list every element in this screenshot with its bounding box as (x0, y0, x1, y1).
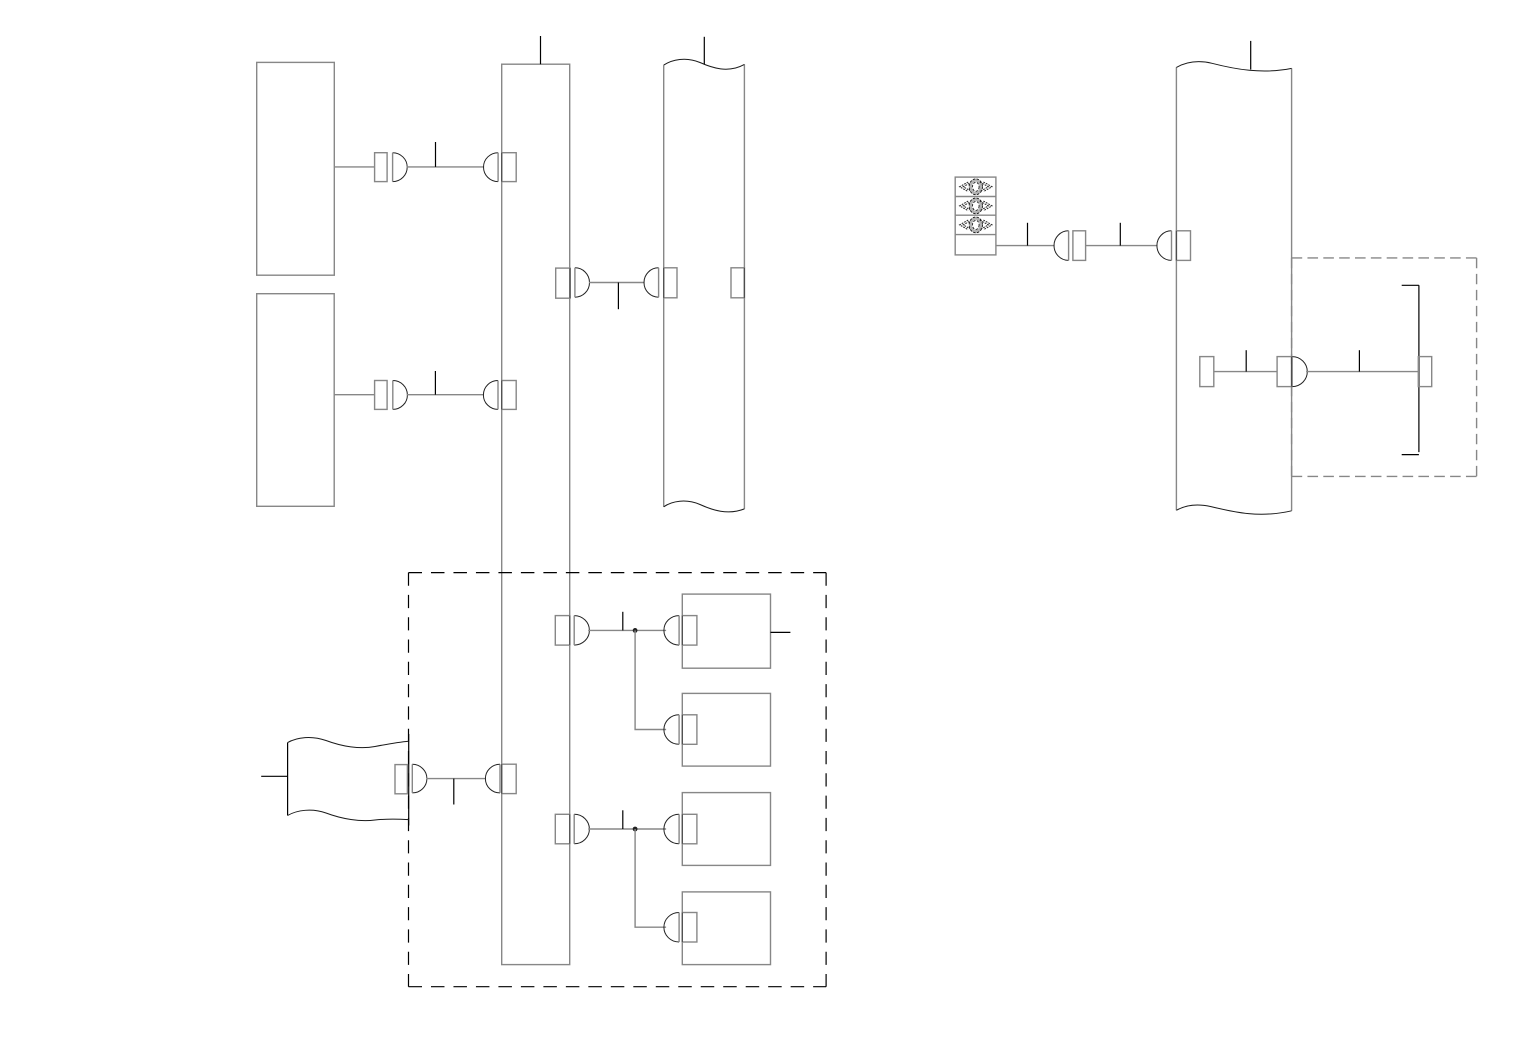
tick on wire G (1st) (1027, 223, 1029, 246)
jack E4 on box E (682, 616, 697, 646)
junction dot E (633, 628, 638, 633)
terminal bracket (right dashed area) (1402, 285, 1419, 454)
doubled edge of jack B4 on panel P1 (501, 381, 503, 410)
doubled edge of jack C4 on sheet S2 (663, 268, 665, 298)
wire box B1 to jack A1 (334, 166, 374, 168)
stub wire at left of sheet S3 (261, 775, 287, 777)
doubled edge of jack F1 on panel P1 (569, 814, 571, 844)
tick on cable E (622, 612, 624, 631)
symbol row 2 (960, 198, 992, 214)
sheet S3 (torn-edge horizontal sheet, bottom left) (288, 734, 409, 826)
plug C2 (575, 268, 590, 297)
tick at top of panel P1 (540, 36, 542, 64)
dashed enclosure (right, gray dashes) (1292, 258, 1477, 477)
dashed enclosure (bottom left, black dashes) (409, 573, 827, 987)
plug E2 (574, 616, 589, 646)
wire stack to plug G1 (996, 245, 1055, 247)
jack C4 on sheet S2 left edge (664, 268, 677, 298)
tick on wire H (1st) (1245, 350, 1247, 371)
plug B3 (483, 381, 498, 410)
jack G2 (1073, 231, 1086, 261)
jack A1 (375, 153, 388, 182)
jack H1 inside sheet S4 (1200, 357, 1214, 387)
tick at top of sheet S2 (703, 37, 705, 65)
wire cable E (588, 629, 666, 631)
wire cable C (589, 282, 645, 284)
plug D2 (412, 764, 427, 793)
device box B2 (left, second) (257, 294, 335, 507)
doubled edge of jack C5 on sheet S2 (743, 268, 745, 298)
sheet S4 (torn-edge tall sheet, right) (1176, 62, 1291, 515)
plug E5 (664, 715, 679, 745)
equipment box E (dashed area, 1st) (682, 594, 770, 668)
wire branch F down (635, 829, 666, 927)
wire cable D (426, 778, 486, 780)
symbol row 1 (960, 179, 992, 195)
plug F5 (664, 913, 679, 943)
jack D4 on panel P1 left edge (502, 764, 517, 793)
plug A3 (484, 153, 499, 182)
equipment box G (dashed area, 3rd) (682, 793, 770, 866)
equipment box H (dashed area, 4th) (682, 892, 770, 965)
plug F3 (664, 814, 679, 844)
jack H4 on terminal bracket (1418, 357, 1431, 387)
plug F2 (574, 814, 589, 844)
plug A2 (393, 153, 408, 182)
jack C5 on sheet S2 right edge (731, 268, 744, 298)
plug G3 (1157, 231, 1172, 261)
jack B1 (375, 381, 388, 410)
plug B2 (393, 381, 408, 410)
doubled edge of jack E1 on panel P1 (569, 616, 571, 646)
jack F4 on box G (682, 814, 697, 844)
jack G4 on sheet S4 left edge (1176, 231, 1190, 261)
doubled edge of jack E6 on box F (681, 715, 683, 745)
tick on cable F (622, 810, 624, 829)
doubled edge of jack D4 on panel P1 (501, 764, 503, 793)
doubled edge of jack H2 on sheet S4 (1291, 357, 1293, 387)
jack F1 on panel P1 right edge (555, 814, 570, 844)
plug D3 (485, 764, 500, 793)
jack H2 on sheet S4 right edge (1277, 357, 1292, 387)
tick on wire G (2nd) (1119, 223, 1121, 246)
wire branch E down (635, 630, 666, 729)
wire cable F (588, 828, 666, 830)
wire jack G2 to plug G3 (1086, 245, 1158, 247)
wire box B2 to jack B1 (334, 394, 374, 396)
wire cable B (407, 394, 484, 396)
junction dot F (633, 827, 638, 832)
jack E1 on panel P1 right edge (555, 616, 570, 646)
wire cable A (407, 166, 485, 168)
jack B4 on panel P1 (502, 381, 517, 410)
doubled edge of jack C1 on panel P1 (569, 268, 571, 298)
jack F6 on box H (682, 913, 697, 943)
tick on cable B (434, 371, 436, 395)
wire plug H3 to jack H4 (1306, 371, 1418, 373)
device box B1 (top left) (257, 62, 335, 275)
doubled edge of jack G4 on sheet S4 (1175, 231, 1177, 261)
tick on wire H (2nd) (1358, 350, 1360, 371)
jack C1 on right edge of panel P1 (556, 268, 570, 298)
plug E3 (664, 616, 679, 646)
plug G1 (1054, 231, 1069, 261)
jack A4 on panel P1 (502, 153, 517, 182)
panel P1 (tall rectangle) (502, 64, 570, 964)
doubled edge of jack E4 on box E (681, 616, 683, 646)
tick on cable A (435, 142, 437, 167)
symbol row 3 (960, 217, 992, 233)
doubled edge of jack F6 on box H (681, 913, 683, 943)
doubled edge of jack A4 on panel P1 (501, 153, 503, 182)
camera device stack (rows with &#171;O&#187; symbols) (955, 177, 996, 255)
tick on cable D (453, 779, 455, 805)
plug C3 (644, 268, 659, 297)
tick on cable C (617, 283, 619, 310)
sheet S2 (torn-edge tall sheet, top middle) (664, 59, 745, 512)
plug H3 (1292, 357, 1307, 387)
equipment box F (dashed area, 2nd) (682, 693, 770, 766)
wire jack H1 to jack H2 (1214, 371, 1277, 373)
tick at top of sheet S4 (1250, 41, 1252, 70)
jack E6 on box F (682, 715, 697, 745)
doubled edge of jack F4 on box G (681, 814, 683, 844)
stub wire right of box E (771, 631, 791, 633)
jack D1 on sheet S3 right edge (395, 765, 407, 794)
